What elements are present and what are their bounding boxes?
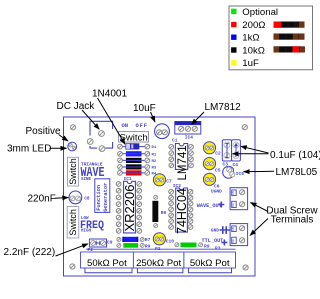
svg-text:SINE: SINE (81, 178, 92, 182)
svg-text:Terminals: Terminals (271, 215, 314, 226)
svg-text:DC Jack: DC Jack (57, 101, 96, 112)
svg-text:C1: C1 (172, 138, 178, 144)
svg-text:3mm LED: 3mm LED (7, 143, 51, 154)
svg-text:OFF: OFF (136, 122, 148, 129)
svg-text:GND: GND (211, 228, 219, 234)
svg-text:R9: R9 (204, 244, 210, 250)
svg-text:WAVE_OUT: WAVE_OUT (197, 203, 222, 209)
svg-text:R1: R1 (152, 153, 157, 157)
svg-text:Switch: Switch (68, 209, 78, 236)
svg-text:Switch: Switch (68, 158, 78, 185)
svg-text:R9: R9 (145, 244, 151, 250)
svg-text:P3: P3 (215, 246, 221, 252)
svg-text:0.1uF (104): 0.1uF (104) (270, 150, 320, 161)
svg-text:C4: C4 (233, 162, 239, 168)
svg-text:LM741: LM741 (177, 145, 189, 180)
svg-text:IN: IN (231, 191, 235, 195)
svg-text:UGND: UGND (211, 188, 222, 194)
svg-text:IC5: IC5 (236, 171, 244, 177)
svg-text:10uF: 10uF (133, 103, 156, 114)
svg-text:R2: R2 (152, 160, 157, 164)
svg-text:TTL_OUT: TTL_OUT (202, 238, 224, 244)
svg-text:LM78L05: LM78L05 (276, 167, 318, 178)
svg-text:Positive: Positive (26, 126, 61, 137)
svg-text:C5: C5 (215, 167, 221, 173)
svg-text:R3: R3 (152, 167, 157, 171)
svg-text:HIGH: HIGH (81, 230, 92, 234)
svg-text:P2: P2 (155, 246, 161, 252)
svg-text:XR2206: XR2206 (122, 185, 137, 232)
svg-text:1N4001: 1N4001 (92, 89, 127, 100)
svg-text:C2: C2 (215, 151, 221, 157)
svg-text:R7: R7 (145, 237, 151, 243)
svg-text:D1: D1 (152, 146, 157, 150)
svg-text:10kΩ: 10kΩ (242, 45, 265, 56)
svg-text:R6: R6 (161, 210, 167, 216)
svg-text:50kΩ Pot: 50kΩ Pot (190, 258, 230, 269)
svg-text:200Ω: 200Ω (242, 20, 265, 31)
svg-text:Generator: Generator (103, 183, 109, 212)
svg-text:C8: C8 (84, 196, 90, 202)
svg-text:74HC04: 74HC04 (175, 188, 189, 234)
svg-text:IN: IN (231, 227, 235, 231)
svg-text:C9: C9 (107, 240, 113, 246)
svg-text:250kΩ Pot: 250kΩ Pot (136, 258, 181, 269)
svg-text:50kΩ Pot: 50kΩ Pot (87, 258, 127, 269)
svg-text:1uF: 1uF (242, 58, 259, 69)
svg-text:1kΩ: 1kΩ (242, 33, 259, 44)
svg-text:C10: C10 (166, 239, 174, 245)
svg-text:ON: ON (122, 122, 129, 129)
svg-text:v1: v1 (231, 203, 235, 207)
svg-text:220nF: 220nF (28, 194, 56, 205)
svg-text:IC4: IC4 (185, 134, 193, 140)
svg-text:2.2nF (222): 2.2nF (222) (4, 247, 56, 258)
svg-text:LM7812: LM7812 (205, 102, 242, 113)
svg-text:Function: Function (96, 185, 102, 211)
svg-text:Optional: Optional (242, 7, 278, 18)
svg-text:C7: C7 (166, 178, 172, 184)
svg-text:v1: v1 (231, 239, 235, 243)
